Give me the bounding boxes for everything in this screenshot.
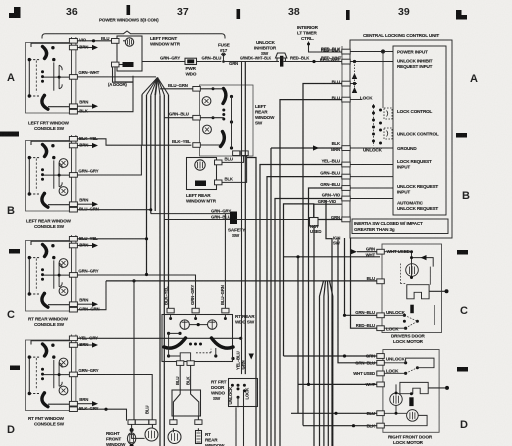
svg-text:GRN: GRN — [366, 354, 375, 359]
splice BRN sw1 — [92, 45, 98, 50]
wire safety bar to unit GRN — [236, 219, 311, 221]
svg-text:REAR: REAR — [205, 438, 218, 443]
svg-text:BLU: BLU — [367, 276, 375, 281]
svg-text:SAFETY: SAFETY — [228, 228, 245, 233]
wire BLU motor M2 up to sw — [222, 156, 244, 163]
left margin dash C/D — [10, 366, 20, 371]
svg-text:BRN: BRN — [79, 298, 88, 303]
splice BRN sw2 — [92, 143, 98, 148]
svg-text:GRN–BLU: GRN–BLU — [355, 310, 375, 315]
svg-text:DOOR: DOOR — [211, 385, 225, 390]
svg-text:WHT USED: WHT USED — [353, 371, 375, 376]
right margin dash A/B — [456, 133, 467, 138]
wire BLK sw1 — [77, 67, 133, 112]
inertia note box — [352, 219, 448, 234]
svg-text:DRIVERS DOOR: DRIVERS DOOR — [391, 334, 426, 339]
svg-text:GROUND: GROUND — [397, 146, 417, 151]
svg-text:BLU: BLU — [225, 156, 233, 161]
splice BRN sw4 lower — [92, 401, 98, 406]
wire to safety sw lower — [164, 219, 230, 221]
svg-text:GREATER THAN 3g: GREATER THAN 3g — [354, 227, 395, 232]
SW3 wire labels — [78, 236, 99, 312]
harness fan (A DOOR) — [142, 78, 169, 96]
svg-text:RED–WHT: RED–WHT — [320, 57, 341, 62]
svg-text:LEFT REAR: LEFT REAR — [186, 193, 211, 198]
svg-text:LOCK: LOCK — [386, 369, 399, 374]
svg-text:BLU–GRN: BLU–GRN — [79, 207, 99, 212]
svg-text:UNLOCK REQUEST: UNLOCK REQUEST — [397, 184, 438, 189]
svg-text:WDO SW: WDO SW — [235, 320, 255, 325]
wire ign sw drop — [326, 200, 332, 239]
wire bundle a1 — [141, 95, 143, 146]
grid tick 36|37 — [127, 5, 131, 15]
wire GRN-BLU to left rear window sw — [164, 117, 193, 119]
svg-text:B: B — [7, 205, 15, 217]
switch unlock inhibitor sw — [276, 53, 287, 62]
wire BLK-GRY sw4 — [77, 409, 126, 420]
svg-text:B: B — [462, 190, 470, 202]
svg-text:GRN–GRY: GRN–GRY — [190, 285, 195, 305]
svg-text:INPUT: INPUT — [397, 190, 410, 195]
svg-text:LEFT REAR WINDOW: LEFT REAR WINDOW — [26, 219, 72, 224]
fuse F17 — [221, 53, 225, 63]
wire y356 to rf GRN pin — [284, 355, 377, 357]
wires inside connector box rt rear — [173, 390, 198, 416]
svg-text:YEL–BLU: YEL–BLU — [235, 351, 240, 370]
svg-text:UNLOCK: UNLOCK — [363, 148, 383, 153]
labels right front box pins — [353, 354, 376, 429]
left margin dash A/B — [0, 132, 19, 137]
right margin dash B/C — [457, 250, 468, 255]
svg-text:LOCK REQUEST: LOCK REQUEST — [397, 159, 432, 164]
switch SW3 rt rear window console sw — [26, 235, 78, 312]
svg-text:LEFT FRONT: LEFT FRONT — [150, 36, 177, 41]
right front door lock motor box — [377, 350, 449, 433]
motor M4 right front window mtr — [127, 420, 158, 446]
wire GRN-GRY sw2 to bundle — [77, 145, 141, 175]
svg-text:WNDO: WNDO — [211, 391, 226, 396]
svg-text:BRN: BRN — [79, 100, 88, 105]
diode box near pin4 — [310, 218, 319, 227]
wire diode down — [313, 226, 315, 446]
wire to rf blu pin — [297, 257, 299, 414]
grid tick 37|38 — [237, 9, 241, 19]
splice BRN sw4 — [92, 342, 98, 347]
wire bundle a2 — [146, 95, 148, 275]
rotated labels above rt frt door sw — [235, 351, 245, 370]
svg-text:SW: SW — [232, 233, 240, 238]
lock mechanism shape right front — [400, 382, 428, 393]
svg-text:GRN–BLU: GRN–BLU — [355, 361, 375, 366]
svg-text:RIGHT FRONT DOOR: RIGHT FRONT DOOR — [388, 435, 433, 440]
wire grpC x344 to GRN-BLU drv pin — [345, 238, 377, 315]
wire bundle a4 — [154, 95, 156, 211]
wire pin2 feed — [270, 148, 272, 446]
svg-text:BLU–GRN: BLU–GRN — [220, 285, 225, 305]
wire GRN-WHT sw1 to fan — [77, 76, 156, 78]
splice timer wire — [307, 43, 310, 46]
svg-text:GRN–VIO: GRN–VIO — [318, 199, 337, 204]
wire bundle a6 — [163, 95, 165, 446]
svg-text:BRN: BRN — [79, 342, 88, 347]
svg-text:BLK–YEL: BLK–YEL — [172, 139, 191, 144]
svg-text:GRN–GRY: GRN–GRY — [211, 208, 231, 213]
wire drop x134 to right front window mtr — [133, 281, 135, 420]
svg-text:POWER WINDOWS 3(3 CON): POWER WINDOWS 3(3 CON) — [99, 18, 159, 23]
splice BLK pin2 — [313, 145, 319, 150]
splice BRN sw3 lower — [92, 302, 98, 307]
switch SW2 left rear window console sw — [26, 135, 78, 212]
svg-text:GRN–GRY: GRN–GRY — [78, 169, 98, 174]
wire grpC x332 — [331, 238, 333, 446]
svg-text:REQUEST INPUT: REQUEST INPUT — [397, 64, 433, 69]
wire interior timer to pin9 — [309, 42, 343, 53]
svg-text:SW: SW — [213, 396, 221, 401]
svg-text:WINDOW MTR: WINDOW MTR — [150, 42, 181, 47]
svg-text:37: 37 — [177, 6, 189, 18]
wire BLU-GRN sw2 to safety — [77, 209, 150, 211]
svg-text:RED–BLK: RED–BLK — [290, 56, 310, 61]
connector D8 — [183, 58, 199, 64]
svg-text:WDO: WDO — [186, 72, 197, 77]
U1 wire labels left of pins — [318, 47, 341, 220]
svg-text:GRN–BLU: GRN–BLU — [211, 214, 231, 219]
svg-text:GRN–WHT: GRN–WHT — [78, 70, 99, 75]
wire GRN-GRY sw4 to right front window mtr — [77, 375, 152, 422]
wire BRN sw1 lower — [77, 105, 92, 107]
svg-text:BLU: BLU — [175, 377, 180, 385]
wires above rt frt door wndo sw — [241, 62, 243, 375]
svg-text:INHIBITOR: INHIBITOR — [254, 46, 277, 51]
rotated labels above rt rear wdo sw — [163, 285, 225, 305]
bundle A verticals — [142, 95, 169, 446]
group C verticals — [284, 238, 377, 446]
svg-text:RT: RT — [205, 432, 211, 437]
svg-text:BRN: BRN — [79, 142, 88, 147]
svg-text:36: 36 — [66, 6, 78, 18]
wire grpC x350 to RED-BLU drv pin — [351, 238, 377, 328]
svg-text:GRN–BLU: GRN–BLU — [169, 112, 189, 117]
svg-text:RED–BLK: RED–BLK — [321, 47, 341, 52]
SW1 wire labels — [78, 38, 99, 114]
svg-text:38: 38 — [288, 6, 300, 18]
svg-text:REAR: REAR — [255, 110, 268, 115]
svg-text:BLU: BLU — [145, 406, 150, 414]
svg-text:GRN–GRY: GRN–GRY — [78, 368, 98, 373]
wire BLU to pin11 — [303, 84, 342, 426]
wire long y280 to drivers BLU pin — [106, 280, 377, 282]
grid corner J — [9, 7, 21, 18]
svg-text:UNLOCK: UNLOCK — [386, 310, 406, 315]
motor M1 left front window mtr — [112, 36, 143, 71]
wire vertical x245 — [244, 62, 246, 375]
svg-text:UNLOCK: UNLOCK — [228, 386, 233, 405]
svg-text:LOCK: LOCK — [386, 326, 399, 331]
wire BRN sw3 — [77, 245, 92, 247]
motor M2 left rear window mtr — [187, 158, 223, 190]
drivers door lock motor box — [377, 244, 449, 333]
svg-text:C: C — [7, 309, 15, 321]
wire BLU-YEL sw3 to junction — [77, 238, 146, 240]
wire grpC x338 to GRN-BLU rf pin — [338, 238, 377, 363]
U1 inner box — [393, 46, 446, 215]
U1 relay lock/unlock internals — [350, 60, 392, 153]
wires below rt rear wdo sw — [180, 365, 190, 389]
U1 pin leaders — [350, 50, 393, 199]
svg-text:CONSOLE SW: CONSOLE SW — [34, 126, 65, 131]
svg-text:FRONT: FRONT — [106, 437, 121, 442]
splice drivers GRN — [351, 249, 357, 254]
wires below rt frt door sw — [236, 391, 244, 446]
svg-text:POWER INPUT: POWER INPUT — [397, 50, 428, 55]
switch left rear window sw box — [193, 85, 253, 156]
svg-text:GRN–GRY: GRN–GRY — [160, 55, 180, 60]
connector bar right front window — [135, 420, 149, 425]
wires right front pins to internals — [384, 363, 405, 374]
svg-text:SW: SW — [255, 121, 263, 126]
SW4 wire labels — [78, 335, 98, 411]
svg-text:UNLOCK REQUEST: UNLOCK REQUEST — [397, 206, 438, 211]
rotated labels below rt rear wdo sw — [175, 376, 190, 385]
svg-text:AUTOMATIC: AUTOMATIC — [397, 201, 424, 206]
svg-text:WHT: WHT — [366, 382, 376, 387]
wire GRN-GRY sw3 to rt rear wdo sw — [77, 275, 195, 308]
wire GRN-VIO second — [284, 204, 314, 356]
svg-text:BLK: BLK — [367, 423, 376, 428]
svg-text:GRN: GRN — [241, 360, 246, 369]
svg-text:WINDOW MTR: WINDOW MTR — [186, 199, 217, 204]
wire BLK to pin2 with splice — [271, 147, 342, 149]
wire not-used box to pin3 — [314, 204, 342, 217]
labels drivers box pins — [355, 246, 375, 328]
svg-text:UNLOCK INHIBIT: UNLOCK INHIBIT — [397, 59, 433, 64]
svg-text:C: C — [460, 305, 468, 317]
svg-text:CENTRAL LOCKING CONTROL UNIT: CENTRAL LOCKING CONTROL UNIT — [363, 33, 439, 38]
splice above rt frt door sw — [249, 354, 254, 360]
lower fan from y280 — [320, 281, 333, 446]
switch SW1 left front window console sw — [26, 37, 78, 114]
svg-text:BLK: BLK — [332, 141, 341, 146]
svg-text:WHT: WHT — [366, 253, 376, 258]
svg-text:PWR: PWR — [186, 66, 197, 71]
wire BLU to pin1 — [280, 100, 342, 446]
svg-text:LOCK: LOCK — [244, 387, 249, 400]
wire long y257 — [284, 256, 381, 258]
svg-text:(A DOOR): (A DOOR) — [108, 82, 127, 87]
U1 pins — [342, 49, 350, 222]
svg-text:GRN–GRY: GRN–GRY — [78, 269, 98, 274]
motor element left — [130, 428, 134, 432]
junction dots bundles — [106, 208, 355, 427]
left margin dash B/C — [9, 249, 20, 254]
wire bundle a7 — [168, 95, 170, 308]
svg-text:RED–BLU: RED–BLU — [356, 323, 375, 328]
connector bar firewall — [280, 56, 283, 67]
wire GRN-BLU to pin8 — [309, 188, 342, 384]
svg-text:A: A — [470, 73, 478, 85]
wire drivers pin4 top run — [384, 252, 433, 278]
svg-text:GRN–BLU: GRN–BLU — [320, 182, 340, 187]
splice BRN sw2 lower — [92, 202, 98, 207]
wire RED-BLK to pin10 — [283, 61, 342, 63]
svg-text:SW: SW — [261, 51, 269, 56]
switch rt rear wdo sw box — [162, 308, 233, 365]
svg-text:INTERIOR: INTERIOR — [297, 25, 319, 30]
svg-text:UNLOCK CONTROL: UNLOCK CONTROL — [397, 132, 439, 137]
motor M3 rt rear window mtr — [168, 416, 202, 444]
wire GRN diode to pin4 — [318, 219, 342, 221]
svg-text:BLU–GRN: BLU–GRN — [168, 83, 188, 88]
svg-text:CONSOLE SW: CONSOLE SW — [34, 224, 65, 229]
wire YEL-BLU to pin7 — [260, 165, 342, 446]
wire BRN sw1 — [77, 47, 92, 49]
svg-text:YEL–BLU: YEL–BLU — [321, 158, 340, 163]
svg-text:BLK: BLK — [79, 109, 88, 114]
junction main power wire — [312, 60, 315, 63]
svg-text:D: D — [460, 419, 468, 431]
wire BRN sw4 — [77, 344, 92, 346]
svg-text:RT FRT: RT FRT — [211, 380, 227, 385]
U1 pin strip — [341, 46, 343, 221]
svg-text:BLU: BLU — [101, 36, 109, 41]
rotated label BLU right front — [145, 406, 150, 414]
wire BRN sw2 lower — [77, 203, 92, 205]
svg-text:BRN: BRN — [79, 397, 88, 402]
junction BLK-GRY — [104, 408, 107, 411]
svg-text:SW: SW — [333, 241, 341, 246]
SEC_BUNDLES — [106, 62, 380, 446]
right margin dash C/D — [457, 367, 468, 372]
wire motor M1 pin3 down to fan — [115, 67, 133, 82]
svg-text:RT REAR: RT REAR — [235, 314, 255, 319]
wire BRN sw4 lower — [77, 403, 92, 405]
wire BLK motor M2 up to sw — [222, 156, 247, 183]
svg-text:BLK: BLK — [185, 376, 190, 385]
splice BRN sw1 lower — [92, 104, 98, 109]
svg-text:GRN: GRN — [229, 61, 238, 66]
U1 input labels — [397, 50, 439, 212]
title bracket — [42, 31, 225, 39]
svg-text:CONSOLE SW: CONSOLE SW — [34, 322, 65, 327]
svg-text:LEFT FRT WINDOW: LEFT FRT WINDOW — [28, 121, 70, 126]
caption left rear window sw — [255, 104, 275, 126]
svg-text:UNLOCK: UNLOCK — [386, 357, 406, 362]
wire bundle a3 — [150, 95, 152, 213]
wire BRN sw2 — [77, 145, 92, 147]
grid corner L — [456, 10, 467, 20]
switch rt frt door wndo sw — [228, 379, 258, 407]
switch SW4 rt frt window console sw — [26, 335, 78, 412]
lock mechanism shape drivers — [407, 285, 429, 299]
svg-text:INPUT: INPUT — [397, 165, 410, 170]
wire rt rear sw third feed — [224, 214, 226, 309]
svg-text:GRN–BLU: GRN–BLU — [320, 170, 340, 175]
wire GRN fuse onward — [224, 61, 280, 63]
svg-text:LOCK CONTROL: LOCK CONTROL — [397, 109, 433, 114]
svg-text:GRN–GRN: GRN–GRN — [79, 307, 99, 312]
motor M-lock right front — [390, 393, 402, 405]
svg-text:WINDOW: WINDOW — [255, 115, 275, 120]
svg-text:GRN–BLU: GRN–BLU — [202, 55, 222, 60]
svg-text:GRN/DK–WHT–BLK: GRN/DK–WHT–BLK — [240, 56, 272, 61]
svg-text:INERTIA SW CLOSED W/ IMPACT: INERTIA SW CLOSED W/ IMPACT — [354, 221, 423, 226]
connector safety sw bar — [230, 212, 237, 225]
wire GRN-BLU D8 to fuse — [198, 61, 222, 63]
svg-text:GRN–VIO: GRN–VIO — [322, 192, 341, 197]
wire GRN-BLU to pin6 — [267, 177, 342, 446]
wire YEL-GRY sw4 to rt frt door wndo sw — [77, 337, 240, 339]
wire GRN-GRN sw3 to long wire — [77, 281, 106, 310]
svg-text:LOCK MOTOR: LOCK MOTOR — [393, 440, 424, 445]
wire y425 to rf BLK pin — [303, 425, 377, 427]
grid tick 38|39 — [346, 10, 350, 20]
SW2 wire labels — [78, 136, 98, 212]
svg-text:RT FNT WINDOW: RT FNT WINDOW — [28, 416, 65, 421]
svg-text:D: D — [7, 424, 15, 436]
wire to safety sw upper — [151, 213, 230, 215]
connector box rt rear — [172, 390, 201, 416]
wire VIO/BLU sw1 to motor1 — [77, 40, 112, 42]
svg-text:VIO: VIO — [79, 38, 87, 43]
svg-text:LOCK MOTOR: LOCK MOTOR — [393, 339, 424, 344]
wire sw-box pin down bundle — [247, 158, 257, 446]
svg-text:BRN: BRN — [79, 242, 88, 247]
central locking control unit U1 outer box — [350, 40, 452, 238]
svg-text:BLK–YEL: BLK–YEL — [163, 286, 168, 305]
svg-text:GRN: GRN — [366, 246, 375, 251]
svg-text:LT TIMER: LT TIMER — [297, 31, 317, 36]
wire GRN-VIO to pin3 — [275, 199, 342, 446]
lock lever drivers — [410, 305, 414, 314]
svg-text:BLU: BLU — [367, 411, 375, 416]
svg-text:RT REAR WINDOW: RT REAR WINDOW — [28, 317, 69, 322]
wire bundle a5 — [159, 95, 161, 446]
svg-text:BLK: BLK — [225, 176, 234, 181]
svg-text:WINDOW: WINDOW — [106, 442, 126, 446]
svg-text:FUSE: FUSE — [218, 43, 230, 48]
svg-text:USED: USED — [310, 229, 321, 234]
svg-text:CTRL.: CTRL. — [301, 36, 314, 41]
svg-text:A: A — [7, 72, 15, 84]
wire GRN-GRY motor to D8 — [142, 61, 185, 63]
splice BRN sw3 — [92, 243, 98, 248]
svg-text:BRN: BRN — [79, 44, 88, 49]
svg-text:39: 39 — [398, 6, 410, 18]
svg-text:#17: #17 — [220, 48, 228, 53]
wire y414 to rf BLU pin — [291, 412, 377, 414]
wire y384 to rf WHT pin — [298, 383, 377, 385]
wire BLU-GRN fan to left rear window sw — [160, 88, 193, 90]
wire BRN sw3 lower — [77, 303, 92, 305]
svg-text:BLK–GRY: BLK–GRY — [79, 406, 99, 411]
svg-text:RIGHT: RIGHT — [106, 431, 120, 436]
splice to drivers GRN pin — [357, 251, 377, 253]
svg-text:LEFT: LEFT — [255, 104, 266, 109]
svg-text:UNLOCK: UNLOCK — [256, 40, 276, 45]
motor M-lock drivers — [406, 264, 419, 277]
svg-text:BRN: BRN — [79, 198, 88, 203]
svg-text:CONSOLE SW: CONSOLE SW — [34, 422, 65, 427]
wire BLK-YEL sw2 to left rear window sw — [77, 139, 191, 145]
